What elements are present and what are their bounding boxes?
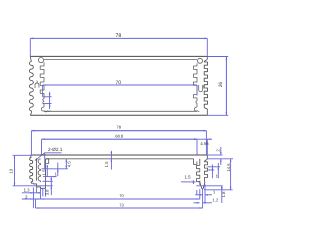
svg-text:2-Ø2.1: 2-Ø2.1 bbox=[48, 147, 63, 152]
svg-text:1.5: 1.5 bbox=[41, 169, 46, 175]
svg-text:73: 73 bbox=[119, 202, 124, 207]
svg-text:1.5: 1.5 bbox=[104, 161, 109, 167]
svg-text:26: 26 bbox=[218, 82, 224, 88]
svg-text:1.5: 1.5 bbox=[185, 175, 192, 180]
svg-text:4.5: 4.5 bbox=[67, 161, 72, 167]
svg-text:13: 13 bbox=[8, 168, 13, 173]
svg-text:78: 78 bbox=[116, 33, 122, 39]
svg-text:1.8: 1.8 bbox=[221, 191, 226, 197]
svg-text:70: 70 bbox=[116, 80, 122, 86]
svg-text:3.8: 3.8 bbox=[44, 189, 49, 195]
svg-text:4.55: 4.55 bbox=[200, 141, 209, 146]
svg-text:1.2: 1.2 bbox=[212, 197, 218, 202]
svg-text:78: 78 bbox=[116, 125, 121, 130]
svg-text:68.8: 68.8 bbox=[115, 134, 124, 139]
svg-text:14.6: 14.6 bbox=[226, 163, 231, 172]
svg-text:70: 70 bbox=[119, 193, 124, 198]
svg-text:1.3: 1.3 bbox=[24, 188, 31, 193]
